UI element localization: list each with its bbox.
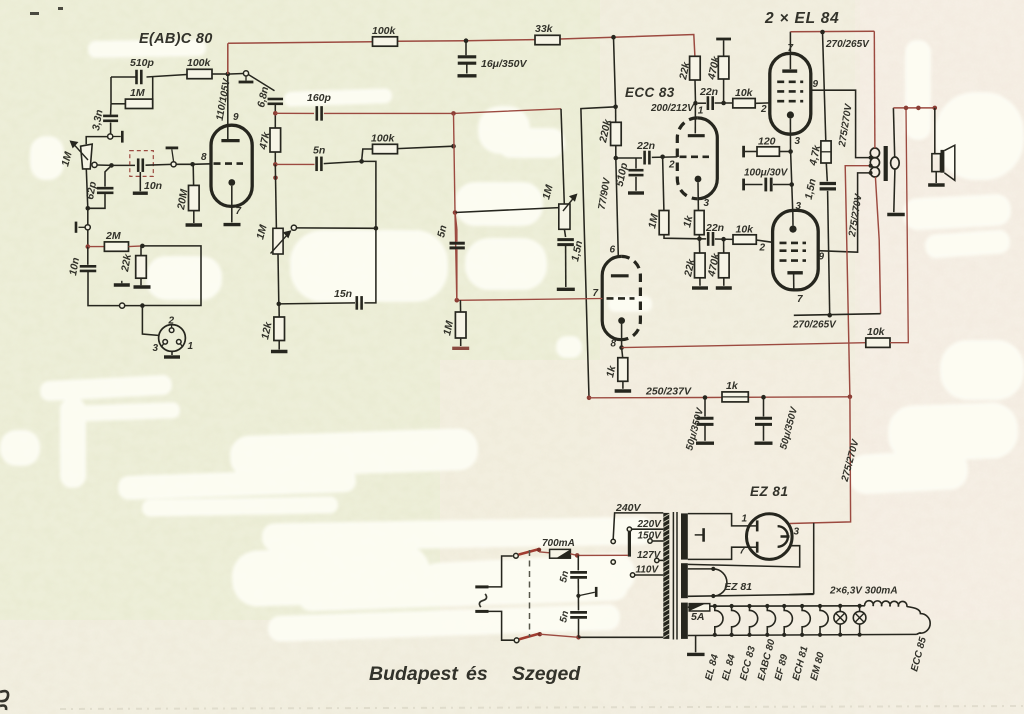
resistor 1M (grid leak B) (455, 312, 466, 338)
ground 470k B (716, 286, 732, 289)
svg-text:8: 8 (611, 339, 617, 350)
wire 6.8n down (274, 104, 276, 114)
wire screen B to tap (818, 173, 870, 252)
resistor 22k (channel A) (690, 56, 701, 80)
wire 5n to node (456, 249, 458, 300)
svg-text:160p: 160p (307, 92, 332, 104)
resistor 2M (104, 242, 128, 251)
heater EM80 arc (820, 606, 828, 635)
wire loop column (362, 161, 376, 303)
contact bar 2 (75, 222, 78, 233)
wire contact to socket node (125, 305, 143, 307)
voltage selector jumper (628, 532, 631, 557)
resistor 47k (270, 128, 281, 152)
wire node to switch (230, 73, 243, 76)
resistor 100k (tone) (373, 144, 398, 153)
wire HV bottom to EZ81 pin 7 (688, 547, 750, 559)
socket ground bar (164, 355, 180, 358)
node grid/20M (190, 162, 195, 167)
wire 15n to pot bottom (279, 303, 355, 304)
ground 12k (271, 350, 288, 353)
wire 510p left leg down (110, 77, 112, 104)
wire 100k to node (212, 73, 228, 75)
wire 160p rail left (red) (275, 112, 314, 114)
anode plate triode B (611, 274, 629, 277)
heater EL84 arc (732, 606, 740, 635)
dial lamp (834, 611, 847, 624)
potentiometer 1M (treble) (559, 204, 570, 229)
capacitor 10n (input) (80, 266, 97, 271)
node loop/wiper (374, 226, 379, 231)
capacitor 100u/30V (766, 178, 771, 192)
svg-text:1: 1 (188, 341, 194, 352)
input contact circle (120, 303, 125, 308)
wire 22k B to ground (699, 278, 701, 286)
svg-text:3: 3 (794, 527, 800, 538)
heater ECH81 arc (802, 606, 810, 635)
wire 22n to 10k B (715, 238, 733, 240)
wire pot top to contact (86, 137, 107, 145)
svg-text:10k: 10k (867, 326, 886, 338)
resistor 1M (grid leak A) (659, 211, 669, 235)
wire wiper to loop column (297, 227, 376, 229)
node snubber bottom (827, 313, 832, 318)
svg-text:22n: 22n (699, 86, 718, 98)
wire 220k to anode node (615, 146, 617, 159)
wire anode rail EL84 A (790, 30, 874, 33)
capacitor 22n (coupling 1) (645, 151, 650, 165)
wire secondary top (893, 108, 894, 157)
capacitor 3,3n (103, 116, 118, 121)
node grid/1M (660, 155, 665, 160)
capacitor 50u/350V no.1 (704, 398, 706, 417)
cathode EL84 B (789, 226, 796, 233)
capacitor 10n (coupling, dashed box) (130, 151, 154, 177)
wire to speaker (934, 108, 936, 154)
wire 1M to ground (460, 338, 462, 346)
resistor 100k (supply dropper) (373, 37, 398, 46)
node 47k/5n (red) (273, 162, 278, 167)
terminal 220V (627, 527, 631, 531)
wire pot bottom down (86, 169, 88, 208)
wire 510p to 100k (147, 75, 188, 78)
ground speaker (928, 183, 945, 186)
wire speaker rail (893, 107, 934, 109)
grid 2 EL84 A (777, 90, 803, 93)
resistor 100k (grid stopper) (187, 69, 212, 78)
cathode triode A (695, 176, 702, 183)
wire feedback to grid pin 7 (458, 299, 603, 301)
wire column to 5n (red) (455, 213, 457, 301)
svg-text:5A: 5A (691, 611, 704, 623)
secondary winding 6.3V heaters (681, 603, 688, 639)
node column/100k (451, 144, 456, 149)
svg-text:100μ/30V: 100μ/30V (744, 168, 789, 179)
resistor 1k (cathode B) (618, 358, 628, 382)
wire anode stem (pin 9) (227, 74, 229, 139)
wire 10n to input contact (88, 271, 119, 305)
node red tap under 47k (273, 176, 278, 181)
wire wiper to node (97, 164, 111, 166)
wire 22n to 10k A (715, 102, 733, 104)
capacitor 22n (drive B) (708, 232, 713, 246)
contact bar stem (172, 149, 174, 161)
heater EL84 arc (715, 606, 723, 635)
switch blade to 6.8n (248, 75, 274, 91)
wire to 220k (615, 107, 617, 123)
wire contact 2 stub (79, 226, 86, 228)
wire speaker to ground (935, 172, 937, 183)
wire to 2M node (87, 230, 89, 247)
grid (dashed) E(AB)C80 (214, 162, 244, 165)
chassis bar 120R (742, 146, 745, 158)
transformer output primary loops (870, 148, 879, 177)
wire 510p to ground (635, 177, 637, 191)
wire heater winding bottom to cathode link (688, 594, 814, 596)
node neutral/5n (576, 635, 581, 640)
ground 1.5n (557, 288, 575, 291)
wire node to 22n (616, 157, 642, 159)
wire wiper node to 10n coupling (112, 164, 136, 166)
wire contact stub (113, 136, 121, 138)
tube E(AB)C80 envelope (211, 125, 252, 206)
svg-text:15n: 15n (334, 288, 352, 300)
node B+ rail corner (848, 395, 853, 400)
resistor 33k (supply dropper) (535, 35, 560, 44)
wire to 12k (278, 304, 280, 317)
terminal 110V (630, 573, 634, 577)
ground 1k B (615, 389, 632, 392)
svg-text:250/237V: 250/237V (645, 386, 692, 398)
node 50u cap 1 (703, 395, 708, 400)
ground 10n box (133, 191, 148, 194)
node pot bottom/62p (86, 206, 91, 211)
capacitor 1,5n (snubber) (820, 184, 836, 189)
wire node to 22k B (698, 239, 700, 253)
node 2M tap (red) (86, 244, 91, 249)
switch blade neutral (519, 634, 539, 640)
wire 2M right (red) (129, 245, 143, 248)
node speaker top (933, 106, 938, 111)
wire down to bass pot (275, 164, 276, 228)
wire 150V tap (652, 540, 663, 542)
svg-text:1M: 1M (130, 87, 145, 99)
wire anode A to primary top (873, 31, 876, 148)
wire node to chassis (578, 592, 594, 596)
wire 1k to ground (622, 381, 624, 389)
node anode triode 1 (614, 156, 619, 161)
wire 110V tap (635, 574, 663, 576)
wire 240V tap (613, 513, 663, 539)
socket pin 3 (163, 340, 168, 345)
capacitor 6,8n (268, 99, 284, 104)
ground 1M (red) (452, 347, 469, 350)
node 220k top (613, 105, 618, 110)
contact circle (pot switch) (108, 134, 113, 139)
terminal 240V (611, 539, 615, 543)
capacitor 1,5n (treble) (557, 240, 574, 245)
wire loop around 22k (142, 246, 201, 306)
wire 20M to ground (193, 211, 195, 223)
wire grid into tube (176, 163, 211, 166)
svg-text:1k: 1k (726, 380, 739, 392)
chassis bar above 470k A (716, 38, 731, 41)
socket pin 3 tick (161, 344, 163, 347)
speaker (932, 154, 941, 172)
wire coupling column (red) (454, 113, 456, 212)
wire blade to fuse (539, 552, 550, 553)
node tap 1 (869, 156, 873, 160)
svg-text:2: 2 (758, 243, 765, 254)
svg-text:510p: 510p (130, 57, 155, 69)
node tap 3 (869, 171, 873, 175)
wire heater rail bottom (688, 634, 917, 635)
corner mark bottom-left (0, 691, 8, 710)
mains transformer core (672, 512, 674, 640)
anode 2 EZ81 (750, 542, 757, 553)
wire cathode pin 3 stem (697, 182, 699, 210)
terminal 127V (655, 558, 659, 562)
grid 1 EL84 B (780, 242, 807, 245)
capacitor 160p (317, 106, 322, 121)
wire 250/237V rail left (589, 397, 705, 399)
node heater arc bottom (711, 594, 715, 598)
node rail/coupling column (451, 111, 456, 116)
svg-text:ECC 83: ECC 83 (625, 85, 675, 100)
wire NFB from cathode to 10k (622, 343, 866, 348)
grid (dashed) triode A (680, 156, 710, 159)
heater EZ81 arc (713, 569, 727, 596)
grid 2 EL84 B (780, 249, 807, 252)
svg-text:2: 2 (168, 316, 175, 327)
socket pin 1 tick (180, 344, 182, 347)
wire 510p stem (635, 158, 637, 169)
svg-text:33k: 33k (535, 23, 554, 35)
grid (dashed) triode B (607, 297, 635, 300)
resistor 120 (757, 147, 779, 156)
potentiometer 1M (bass) (273, 228, 283, 254)
grid 3 EL84 A (777, 81, 803, 84)
node wiper/grid (109, 163, 114, 168)
wire lower anode rail (794, 314, 881, 316)
node 5n/100k (359, 159, 364, 164)
wire to 5n filter 1 (577, 555, 579, 570)
wire pin 1 anode stem (694, 103, 696, 133)
mains plug prongs (475, 587, 488, 612)
bottom scan noise band (60, 706, 1024, 709)
wire plate supply rail top (right part) (560, 35, 695, 57)
fuse 700mA (550, 549, 571, 558)
contact circle 2 (85, 225, 90, 230)
cathode EL84 A (787, 111, 794, 118)
wire 1M grid leak down (663, 157, 664, 211)
svg-text:7: 7 (236, 206, 242, 217)
node 2M/22k (140, 244, 145, 249)
node snubber top (820, 30, 825, 35)
node 50u cap 2 (761, 395, 766, 400)
resistor 1k (cathode A) (695, 211, 705, 235)
svg-text:7: 7 (788, 43, 794, 54)
svg-text:és: és (466, 663, 488, 685)
wire to 5n filter 2 (577, 596, 579, 611)
wire snubber to lower anode rail (828, 191, 830, 315)
svg-text:150V: 150V (638, 531, 663, 542)
svg-text:3: 3 (153, 343, 159, 354)
pink paper wash right (855, 0, 1024, 714)
wire HV top to EZ81 pin 1 (688, 514, 750, 526)
node center tap (869, 164, 873, 168)
wire 12k to ground (278, 341, 280, 350)
socket pin 1 (177, 340, 182, 345)
ground cathode E(AB)C80 (224, 223, 241, 226)
svg-text:10n: 10n (144, 180, 162, 192)
wire NFB up to secondary (890, 108, 908, 343)
contact bar (pot switch) (121, 131, 124, 143)
wire 22k to chassis bar (140, 278, 142, 285)
heater EF89 arc (784, 606, 792, 635)
terminal spare (611, 560, 615, 564)
wire plate supply rail top (middle part) (398, 40, 536, 42)
switch blade live (519, 549, 539, 554)
contact bar above grid (166, 146, 179, 149)
svg-text:EZ 81: EZ 81 (750, 484, 789, 499)
resistor 4,7k (snubber) (821, 141, 831, 163)
wire node down to 62p (105, 165, 112, 186)
resistor 12k (274, 317, 285, 341)
ground 20M (186, 223, 203, 226)
capacitor 5n (filter 1) (570, 572, 587, 577)
svg-text:100k: 100k (371, 133, 396, 145)
node NFB tap (904, 106, 909, 111)
mains transformer primary winding (663, 513, 669, 639)
capacitor 5n (bass) (317, 157, 322, 172)
wire 62p to pot bottom leg (88, 193, 105, 208)
wire bar to 100u (744, 184, 763, 186)
resistor 220k (611, 122, 622, 145)
wire 22n to grid pin 2 (652, 156, 678, 159)
node feedback/5n (455, 298, 460, 303)
capacitor 5n (filter 2) (570, 612, 587, 617)
grid 1 EL84 A (777, 100, 803, 103)
svg-text:22n: 22n (705, 222, 724, 234)
switch terminal live (514, 553, 519, 558)
resistor 10k (NFB) (866, 338, 890, 347)
anode 1 EZ81 (750, 520, 757, 531)
anode plate E(AB)C80 (221, 139, 239, 142)
label mains AC tilde (478, 593, 487, 608)
wire live to selector (577, 554, 628, 556)
anode plate triode A (688, 134, 705, 137)
heater ECC83 arc (750, 606, 758, 635)
svg-text:700mA: 700mA (542, 538, 575, 549)
wire B+ rail to center tap (845, 166, 870, 397)
wire to 20M (192, 164, 194, 185)
wire 5n up (456, 229, 458, 242)
wire secondary bottom to ground (894, 169, 895, 212)
pink paper wash bottom (0, 620, 1024, 714)
bass pot arrow (271, 231, 291, 253)
svg-text:270/265V: 270/265V (825, 39, 870, 50)
wire treble pot to 1.5n (564, 229, 565, 237)
wire plug neutral (489, 611, 514, 640)
wire neutral blade to node (540, 634, 579, 637)
wire 100k to column (398, 146, 454, 148)
grid 3 EL84 B (780, 259, 807, 262)
treble pot arrow (563, 195, 576, 212)
switch blade tip neutral (538, 632, 542, 636)
potentiometer arrow (71, 141, 88, 160)
wire grid left of circle (171, 163, 176, 165)
wire 10k to EL84 pin 2 (755, 102, 770, 104)
node heater arc top (711, 567, 715, 571)
wire 470k to node (723, 79, 725, 103)
socket ground stem (171, 351, 173, 355)
switch bar stem (245, 76, 247, 81)
switch blade tip live (537, 548, 541, 552)
resistor 10k (grid stopper B) (733, 235, 756, 244)
wire to 470k B (723, 239, 725, 253)
socket pin 2 (169, 328, 174, 333)
node anode E(AB)C80 (226, 72, 231, 77)
wire to 22k top (140, 246, 142, 256)
svg-text:1: 1 (742, 514, 748, 525)
svg-text:2: 2 (760, 104, 767, 115)
wire 10k to EL84 B pin 2 (756, 240, 772, 242)
svg-text:100k: 100k (372, 25, 397, 37)
cathode E(AB)C80 (228, 179, 235, 186)
svg-text:EZ 81: EZ 81 (724, 581, 752, 593)
capacitor 50u/350V no.2 (763, 397, 765, 416)
wire snubber down (823, 32, 826, 141)
wire 160p rail right (red) (324, 109, 561, 114)
resistor 470k (channel B) (719, 253, 730, 278)
node 470k/10k A (721, 101, 726, 106)
chassis bar under 22k (134, 285, 151, 288)
svg-text:6: 6 (610, 245, 616, 256)
potentiometer 1M (volume) (81, 144, 93, 169)
svg-text:8: 8 (201, 152, 207, 163)
svg-text:120: 120 (758, 136, 776, 148)
svg-text:1: 1 (698, 106, 704, 117)
wire node up to supply rail (227, 43, 229, 74)
wire plug live (489, 556, 513, 587)
wire 47k to 5n node (274, 152, 276, 164)
svg-text:3: 3 (704, 198, 710, 209)
HV center-tap chassis symbol (695, 528, 704, 542)
wire cathode to ground (231, 186, 233, 223)
svg-text:9: 9 (233, 112, 239, 123)
input socket outline (159, 325, 186, 352)
wire 250/237V rail right (764, 396, 850, 398)
svg-text:127V: 127V (637, 550, 662, 561)
wire node to 22n A (698, 102, 706, 104)
transformer output core (884, 146, 888, 181)
svg-text:2 × EL 84: 2 × EL 84 (764, 10, 840, 27)
wire to 1M left (111, 103, 125, 105)
svg-text:Szeged: Szeged (512, 663, 581, 685)
choke 2x6,3V (865, 601, 907, 607)
switch bar (239, 81, 254, 84)
node cathode B (619, 345, 624, 350)
wire neutral to primary bottom (579, 636, 664, 638)
cathode triode B (618, 317, 625, 324)
chassis bar 2 (left) (121, 281, 123, 284)
wire 5n to 100k node (324, 161, 362, 163)
svg-text:100k: 100k (187, 57, 212, 69)
resistor 470k (channel A) (718, 56, 729, 79)
wire cathode pin 8 stem (621, 324, 623, 348)
wire plate supply rail top (left part) (228, 42, 373, 44)
